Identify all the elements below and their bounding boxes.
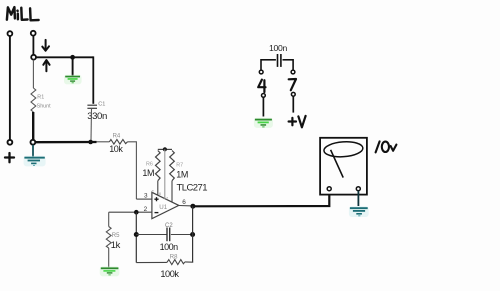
svg-text:R8: R8 bbox=[170, 254, 178, 260]
wire R8 bottom right bbox=[185, 261, 193, 264]
wire R8 bottom left bbox=[136, 261, 167, 263]
wire feedback left vertical bbox=[135, 212, 137, 262]
svg-text:R1: R1 bbox=[37, 95, 44, 101]
svg-text:R7: R7 bbox=[176, 163, 183, 169]
svg-text:C1: C1 bbox=[98, 101, 105, 107]
wire R6 lower lead bbox=[157, 181, 159, 196]
label +V bbox=[289, 116, 306, 127]
wire R6R7 top bar bbox=[158, 148, 172, 150]
op-amp U1 TLC271 bbox=[152, 192, 179, 218]
svg-text:100n: 100n bbox=[160, 242, 179, 252]
wire R7 lower lead bbox=[171, 181, 173, 203]
svg-text:100k: 100k bbox=[160, 269, 179, 279]
svg-text:R4: R4 bbox=[113, 134, 121, 140]
terminal P7 lower bbox=[291, 92, 295, 96]
terminal J3 (bottom left, +) bbox=[7, 140, 12, 145]
ground GND3 (green) bbox=[100, 266, 120, 276]
wire R4 to pin3 corner bbox=[128, 142, 137, 199]
junction dot C2 right bbox=[190, 232, 195, 237]
wire output down vertical bbox=[192, 206, 194, 262]
wire op-amp output stub bbox=[179, 205, 193, 207]
junction dot C2 left bbox=[134, 232, 139, 237]
svg-text:1M: 1M bbox=[142, 168, 154, 178]
resistor R8 bbox=[167, 260, 185, 265]
wire C3 left bend bbox=[260, 59, 262, 70]
label 4 bbox=[258, 80, 265, 92]
plus label bbox=[5, 153, 14, 162]
ground GND4 (green) bbox=[254, 118, 273, 128]
svg-text:1M: 1M bbox=[176, 169, 188, 179]
wire node to R1 (thin upper lead) bbox=[32, 60, 34, 88]
svg-text:TLC271: TLC271 bbox=[177, 182, 208, 193]
junction dot feedback bbox=[134, 210, 139, 215]
label 10v bbox=[376, 141, 397, 152]
svg-text:Shunt: Shunt bbox=[37, 104, 52, 110]
terminal J4 bbox=[31, 140, 36, 145]
wire node to C1 branch (top horizontal) bbox=[36, 56, 93, 58]
junction dot C1 bottom bbox=[88, 140, 93, 145]
resistor R7 bbox=[170, 151, 175, 181]
terminal P4 upper bbox=[259, 70, 263, 74]
junction dot ground tap bbox=[70, 55, 75, 60]
terminal J1 (top left) bbox=[7, 31, 12, 36]
svg-text:1k: 1k bbox=[111, 239, 121, 250]
meter needle bbox=[331, 150, 344, 178]
resistor R5 bbox=[106, 227, 111, 249]
wire J1 down to J3 bbox=[9, 36, 11, 140]
wire C1 lower lead bbox=[90, 108, 93, 141]
wire R5 lower lead bbox=[108, 248, 110, 267]
capacitor C2 bbox=[167, 228, 170, 242]
ground GND5 (teal) bbox=[349, 206, 369, 217]
wire R5 upper lead bbox=[108, 212, 110, 226]
label MILL bbox=[7, 7, 39, 20]
svg-text:330n: 330n bbox=[87, 111, 107, 122]
arrow down bbox=[42, 40, 49, 51]
terminal P4 lower bbox=[262, 94, 266, 98]
junction dot R6R7 bbox=[163, 147, 167, 151]
svg-text:R6: R6 bbox=[146, 162, 153, 168]
junction dot output bbox=[190, 204, 195, 209]
svg-text:100n: 100n bbox=[269, 43, 287, 53]
wire J2 down to node bbox=[32, 36, 34, 55]
label 7 bbox=[289, 79, 296, 90]
svg-text:6: 6 bbox=[182, 199, 186, 206]
resistor R6 bbox=[156, 151, 161, 181]
svg-text:3: 3 bbox=[144, 192, 148, 199]
wire output to meter (thick) bbox=[193, 191, 329, 207]
svg-text:C2: C2 bbox=[165, 223, 173, 229]
capacitor C1 bbox=[87, 105, 97, 108]
wire to R4 bbox=[97, 141, 110, 143]
svg-text:2: 2 bbox=[144, 206, 148, 213]
meter terminal right bbox=[356, 187, 360, 191]
wire J4 to C1 node (thick) bbox=[36, 141, 97, 143]
svg-text:10k: 10k bbox=[109, 144, 123, 154]
wire P7 down bbox=[292, 96, 294, 112]
capacitor C3 (decoupling) bbox=[261, 54, 293, 67]
resistor R1 bbox=[31, 88, 36, 112]
wire J4 ground stub bbox=[32, 145, 34, 157]
svg-text:U1: U1 bbox=[159, 204, 167, 211]
ground GND1 (green) bbox=[64, 75, 82, 85]
arrow up bbox=[43, 60, 49, 71]
meter dial ellipse bbox=[323, 141, 363, 158]
meter M1 box bbox=[320, 138, 367, 195]
meter terminal left bbox=[327, 187, 331, 191]
wire meter right to ground bbox=[357, 191, 359, 206]
wire ground stub bbox=[72, 57, 74, 75]
node N1 (open circle) bbox=[31, 55, 36, 60]
terminal P7 upper bbox=[291, 70, 295, 74]
wire C2 left bbox=[136, 234, 167, 236]
resistor R4 bbox=[109, 140, 127, 145]
wire pin3 stub bbox=[136, 198, 152, 200]
wire C3 right bend bbox=[292, 59, 294, 70]
wire C2 right bbox=[171, 234, 193, 236]
wire bias middle bbox=[164, 149, 166, 199]
wire pin2 line bbox=[109, 211, 152, 213]
terminal J2 (top second) bbox=[31, 31, 36, 36]
ground GND2 (teal) bbox=[24, 156, 46, 167]
wire C1 branch down bbox=[92, 56, 94, 103]
wire P4 to ground bbox=[262, 97, 264, 116]
wire R1 lower lead (thick) bbox=[32, 112, 34, 140]
